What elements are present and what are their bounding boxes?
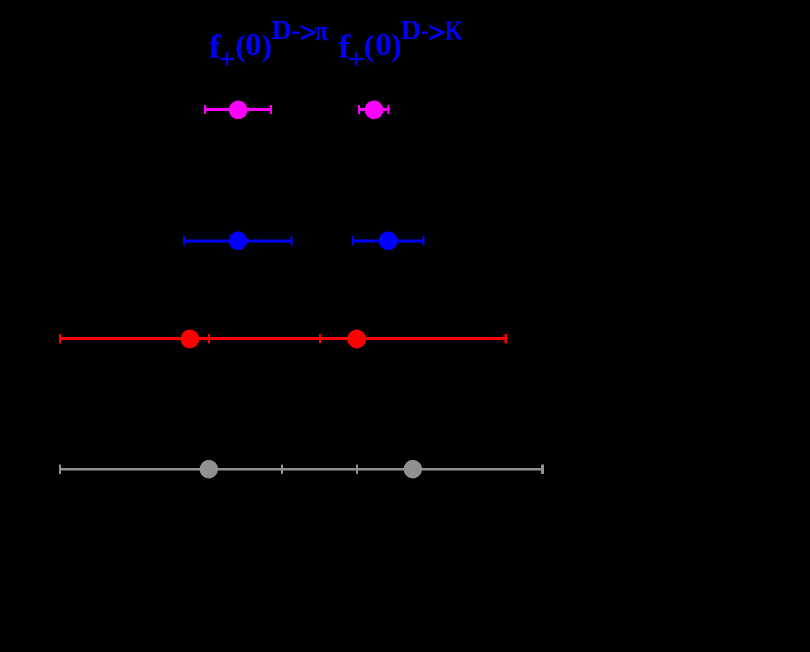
row 3 red point 1 error bar [59,330,321,349]
row 1 magenta point 2 error bar [358,101,390,120]
svg-text:D: D [401,15,421,45]
row 4 gray point 1 error bar [59,460,358,478]
row 2 blue point 2 error bar [352,231,425,250]
svg-text:0: 0 [375,26,392,62]
title label f+(0)^D->K [338,15,462,76]
svg-text:+: + [347,43,364,75]
svg-text:): ) [262,28,272,63]
row 2 blue point 1 error bar [183,232,292,251]
row 4 gray point 2 error bar [281,460,544,478]
svg-text:(: ( [364,28,374,63]
svg-text:K: K [445,16,463,46]
svg-text:0: 0 [245,26,262,62]
svg-text:>: > [428,17,445,49]
svg-text:(: ( [235,28,245,63]
row 3 red point 2 error bar [208,330,507,349]
row 1 magenta point 1 error bar [204,101,272,120]
svg-text:D: D [272,15,292,45]
svg-text:+: + [219,43,236,75]
svg-text:π: π [314,16,329,47]
title label f+(0)^D->pi [209,15,330,76]
